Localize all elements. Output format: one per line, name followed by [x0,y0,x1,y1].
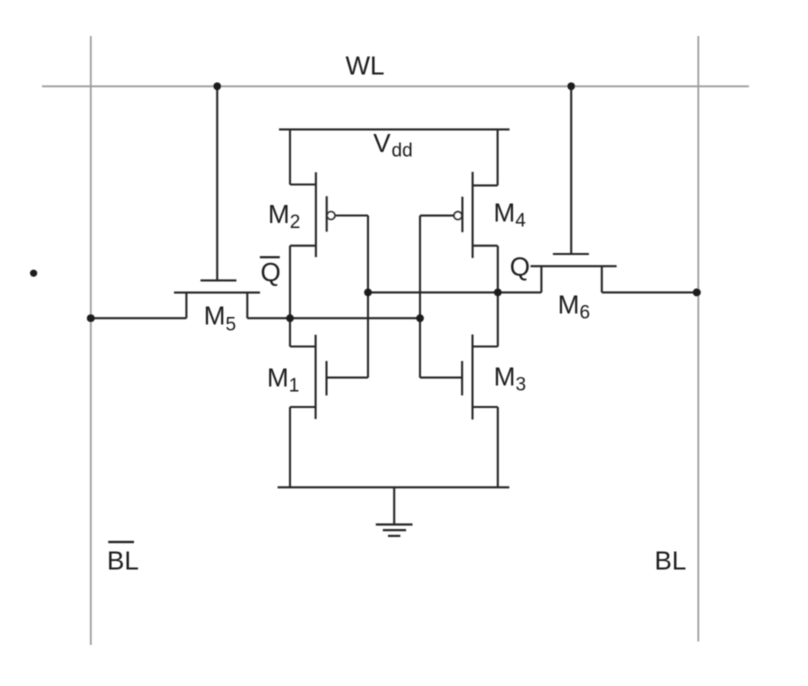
label BLbar [107,542,139,576]
transistor M4 source stub [473,184,498,186]
wire right-gates vertical [419,216,421,378]
bit line BLbar (gray rail, left) [90,36,92,645]
svg-text:1: 1 [289,375,300,396]
wire M2 gate to bubble-right [335,214,368,216]
node Q trunk [497,246,499,347]
transistor M6 channel [531,265,617,267]
ground bar 1 [376,523,413,525]
label M2 [268,199,300,233]
bit line BL (gray rail, right) [697,36,699,642]
wire BLbar to M5 [91,317,187,319]
svg-text:5: 5 [226,315,237,336]
transistor M2 source stub [290,183,316,185]
transistor M5 channel [174,292,260,294]
svg-text:6: 6 [580,303,591,324]
transistor M6 left stub [540,266,542,292]
transistor M4 drain stub [473,245,498,247]
transistor M2 drain stub [290,245,316,247]
svg-text:M: M [558,290,580,320]
transistor M1 channel [315,335,317,419]
ground stem [393,487,395,524]
transistor M5 left stub [185,293,187,319]
svg-text:BL: BL [107,546,139,576]
svg-text:WL: WL [346,51,385,81]
svg-text:3: 3 [516,374,527,395]
junction dot BL/M6 wire [693,288,701,296]
transistor M1 gate lead [327,377,369,379]
transistor M5 right stub [246,293,248,319]
junction dot left gates/upper wire [364,289,372,297]
svg-text:4: 4 [515,211,526,232]
svg-text:BL: BL [655,546,687,576]
wire cross-couple lower (Qbar to right gates) [247,317,420,319]
transistor M3 gate bar [461,361,463,395]
svg-text:V: V [373,128,391,158]
transistor M3 channel [471,335,473,420]
node Qbar trunk [289,246,291,347]
junction dot right gates/lower wire [416,314,424,322]
bubble of PMOS M4 [454,212,462,220]
junction dot WL/M5 gate [213,82,221,90]
transistor M3 gate lead [420,377,462,379]
wire Vdd to M2 source [289,129,291,184]
junction dot Qbar trunk/lower wire [286,314,294,322]
label M1 [267,362,299,396]
junction dot WL/M6 gate [567,82,575,90]
transistor M5 gate bar [201,279,237,281]
transistor M6 gate lead from WL [570,86,572,254]
junction dot BLbar/M5 wire [87,314,95,322]
transistor M2 channel [315,172,317,257]
wire cross-couple upper (Q to left gates and M6) [368,291,541,293]
wire Vdd to M4 source [497,129,499,185]
transistor M3 source stub [473,406,498,408]
label Qbar [260,257,281,287]
wire M1 source to ground rail [289,407,291,487]
svg-text:M: M [267,362,289,392]
wire M4 gate to bubble-left [420,215,454,217]
transistor M4 gate bar [461,197,463,233]
transistor M5 gate lead from WL [216,86,218,280]
label M5 [204,301,236,336]
label Vdd [373,128,412,162]
svg-text:Q: Q [510,252,530,282]
svg-text:M: M [494,361,516,391]
transistor M6 gate bar [553,253,589,255]
transistor M2 gate bar [326,196,328,232]
svg-text:M: M [494,198,516,228]
ground rail [278,486,510,488]
ground bar 2 [383,529,406,531]
wire M6 to BL [602,291,697,293]
junction dot Q trunk/upper wire [494,289,502,297]
transistor M4 channel [472,172,474,258]
svg-text:M: M [204,301,226,331]
label M6 [558,290,590,324]
transistor M1 gate bar [325,361,327,395]
transistor M1 source stub [290,406,316,408]
transistor M6 right stub [601,266,603,292]
svg-text:Q: Q [261,257,281,287]
ground bar 3 [388,535,400,537]
bubble of PMOS M2 [327,212,335,220]
wire Vdd rail [279,128,510,130]
svg-text:dd: dd [392,141,413,162]
svg-text:2: 2 [290,212,301,233]
transistor M1 drain stub [290,345,316,347]
transistor M3 drain stub [473,345,498,347]
label M3 [494,361,526,395]
word line WL (gray rail) [42,85,749,87]
wire left-gates vertical [367,216,369,378]
wire M3 source to ground rail [497,407,499,487]
stray dot far left [30,270,37,277]
label M4 [494,198,527,232]
svg-text:M: M [268,199,290,229]
